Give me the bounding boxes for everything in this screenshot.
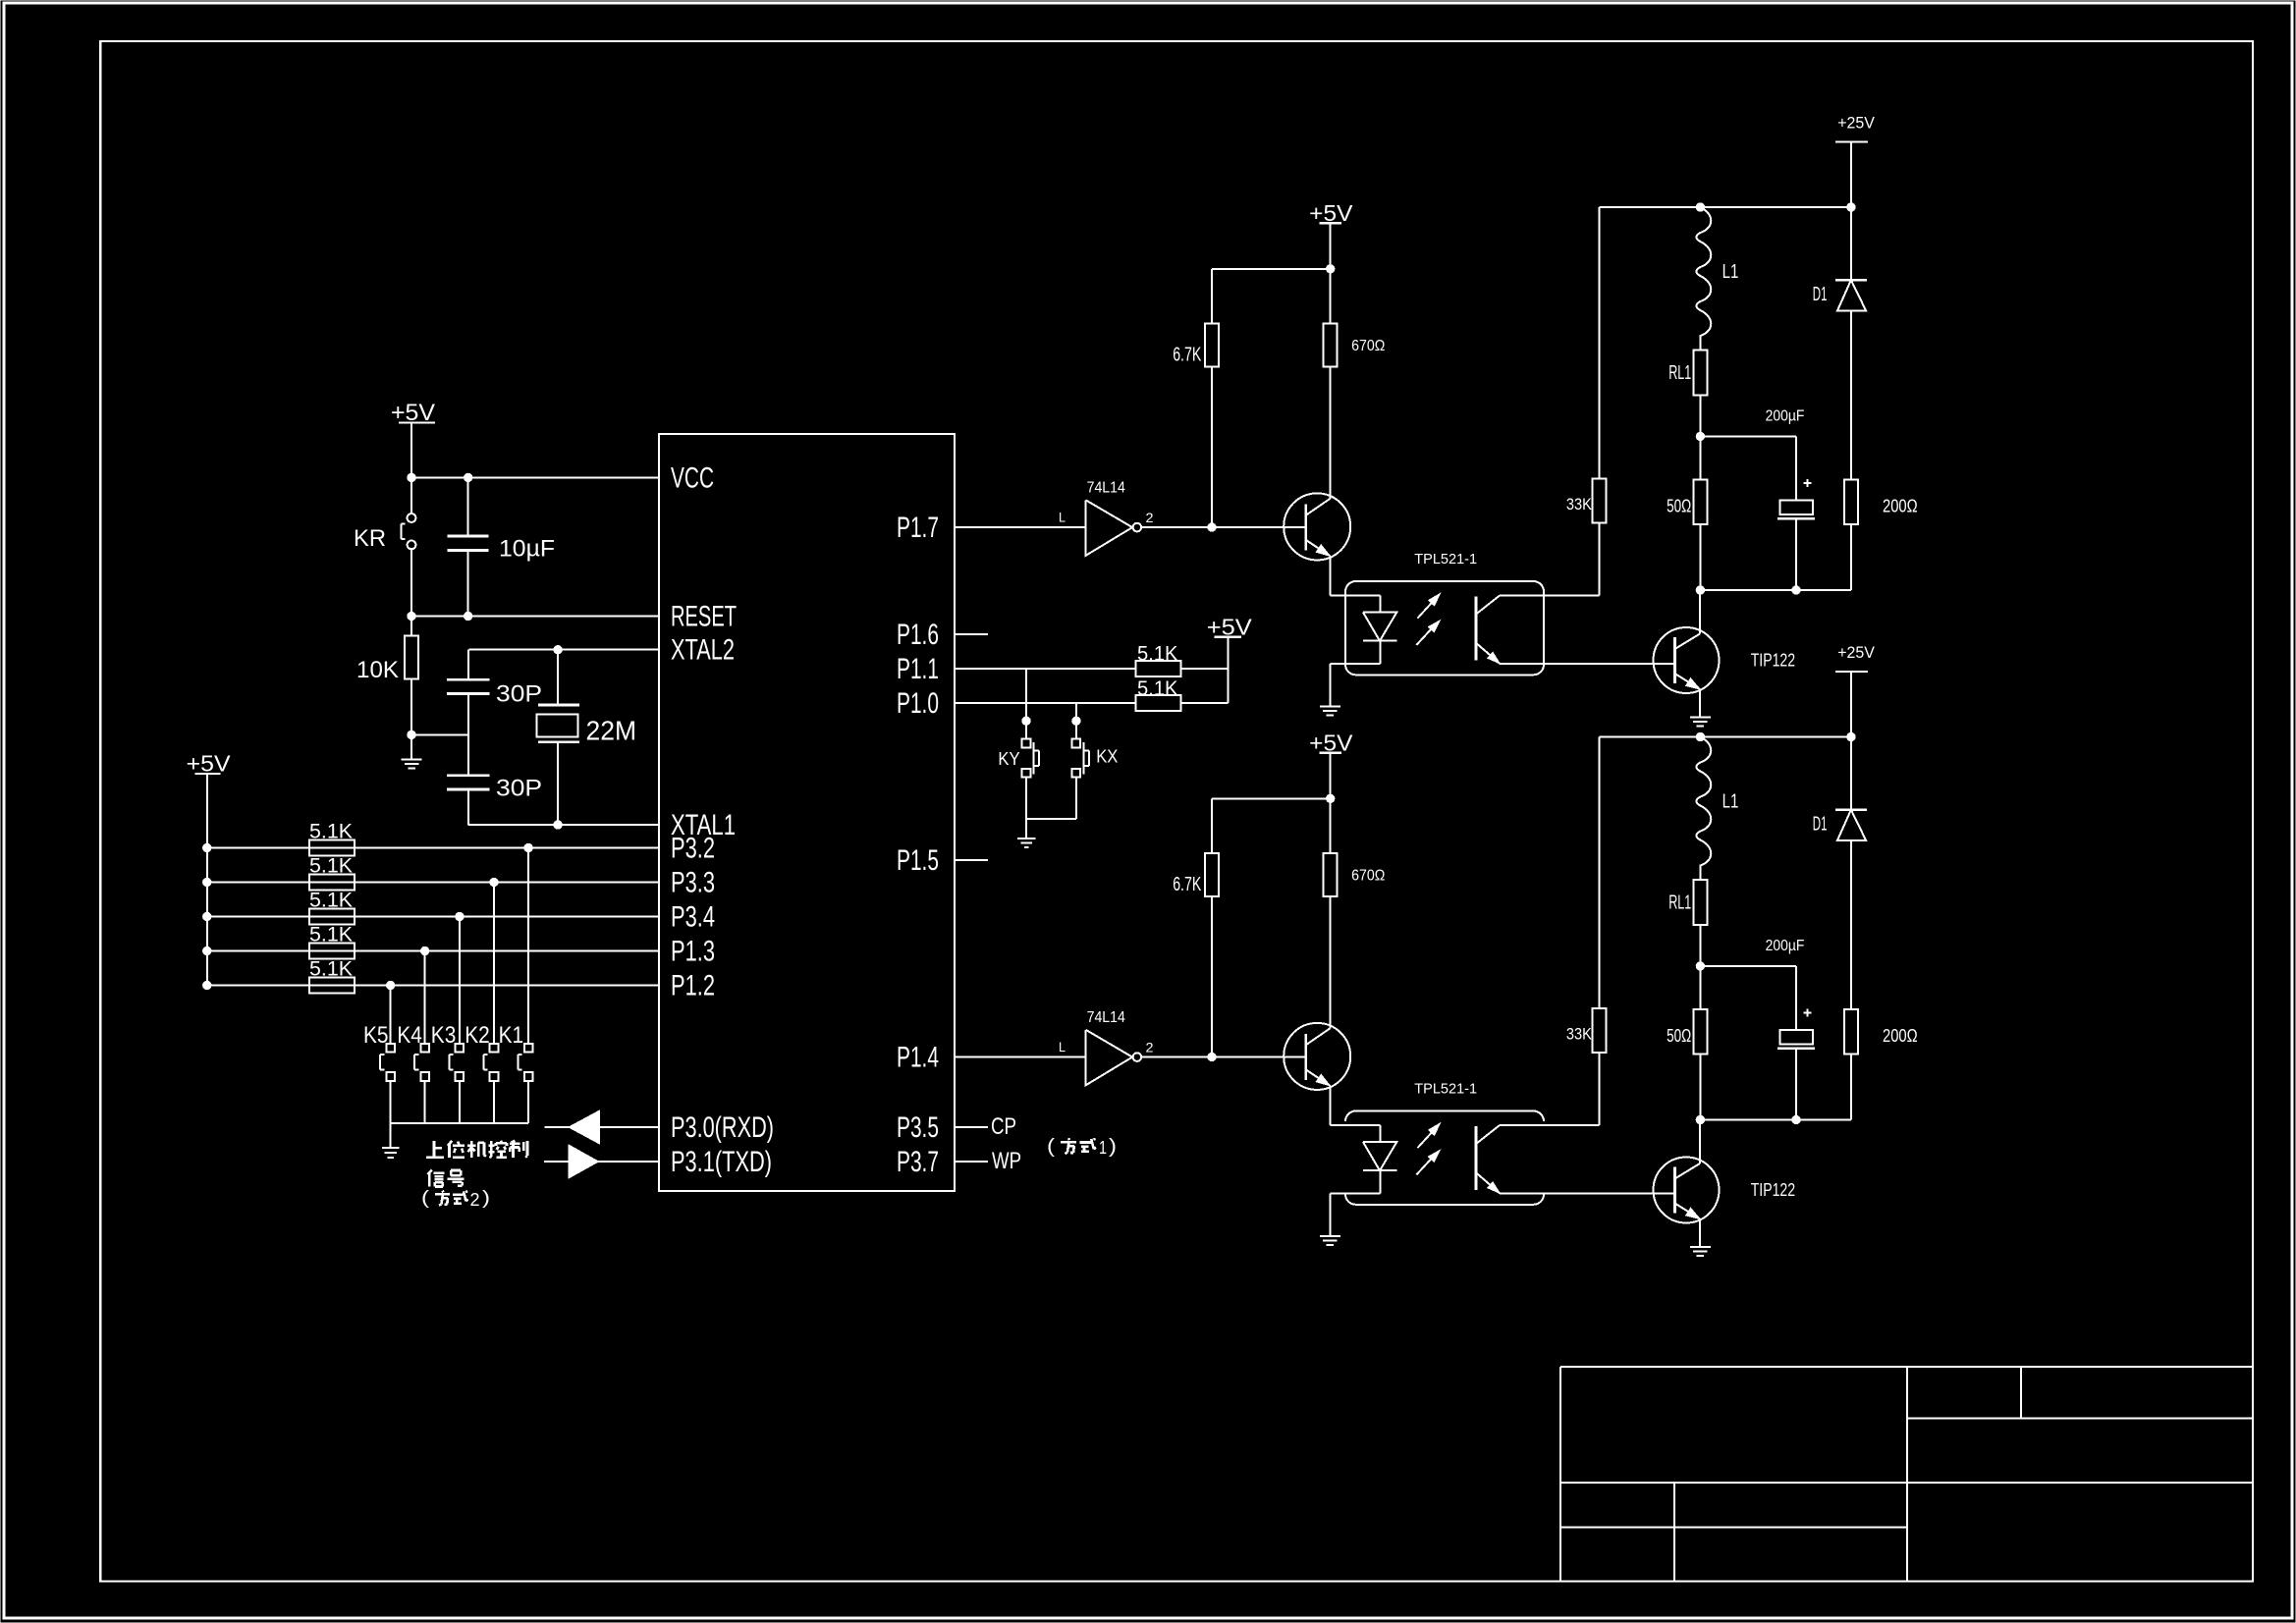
pin label P3.4	[671, 901, 715, 934]
wire K1 to bus	[527, 1081, 529, 1123]
junction RESET/C1	[465, 612, 472, 620]
opto phototransistor	[1476, 1125, 1500, 1193]
svg-text:L1: L1	[1722, 261, 1739, 283]
svg-text:200Ω: 200Ω	[1883, 1026, 1918, 1046]
pushbutton K1	[519, 1044, 533, 1081]
svg-text:P3.1(TXD): P3.1(TXD)	[671, 1146, 772, 1178]
svg-text:+5V: +5V	[1207, 615, 1253, 640]
wire K2 drop	[493, 883, 495, 1044]
resistor 5.1K P1.2	[309, 978, 355, 994]
label 5.1K P1.2	[309, 956, 354, 981]
svg-text:74L14: 74L14	[1087, 480, 1126, 497]
junction +5V/670	[1327, 794, 1335, 802]
label 200uF	[1766, 407, 1805, 425]
label D1	[1813, 814, 1828, 836]
svg-text:): )	[1109, 1136, 1117, 1158]
junction VCC/KR	[408, 473, 415, 481]
ground opto LED	[1320, 1236, 1340, 1245]
pin label P1.7	[897, 512, 939, 544]
transistor TIP122	[1654, 1158, 1720, 1223]
pin label P3.7	[897, 1146, 939, 1178]
transistor Q NPN	[1284, 493, 1350, 560]
junction rail/50	[1696, 586, 1704, 594]
label 5.1K P3.2	[309, 819, 354, 843]
wire +5V drop	[1330, 223, 1332, 269]
ground key bus	[382, 1123, 400, 1158]
svg-text:TPL521-1: TPL521-1	[1414, 552, 1477, 568]
label TIP122	[1751, 1180, 1795, 1201]
pushbutton K2	[483, 1044, 498, 1081]
label K2	[465, 1023, 490, 1049]
svg-text:(: (	[1047, 1136, 1055, 1158]
junction rail/+25V	[1847, 732, 1855, 740]
pushbutton KR	[401, 477, 415, 616]
label WP	[992, 1149, 1021, 1174]
svg-text:10µF: 10µF	[499, 537, 555, 563]
junction rail/+25V	[1847, 203, 1855, 211]
label 6.7K	[1173, 345, 1201, 366]
pin label P3.0(RXD)	[671, 1111, 774, 1144]
pushbutton K5	[380, 1044, 395, 1081]
svg-text:RL1: RL1	[1668, 891, 1691, 913]
pin label RESET	[671, 601, 737, 633]
junction rail/P1.3	[203, 947, 211, 954]
wire P3.1 TXD	[544, 1161, 659, 1163]
svg-text:5.1K: 5.1K	[1137, 676, 1178, 700]
wire inverter output to Q base	[1141, 1056, 1305, 1058]
resistor 670	[1324, 323, 1338, 366]
capacitor 200uF	[1777, 479, 1815, 590]
resistor 6.7K	[1205, 323, 1219, 366]
wire Q emitter to opto pin1	[1330, 1086, 1380, 1125]
svg-text:1: 1	[1099, 1138, 1107, 1159]
diode D1	[1835, 737, 1867, 1009]
wire +5V drop	[1330, 753, 1332, 799]
wire TIP emitter to ground	[1699, 689, 1701, 718]
light arrow 1	[1417, 1123, 1440, 1148]
label 74L14	[1087, 480, 1126, 497]
label shangweiji kongzhi	[426, 1141, 527, 1158]
junction RESET/KR	[408, 612, 415, 620]
svg-text:+5V: +5V	[1309, 730, 1353, 756]
resistor 5.1K P3.4	[309, 909, 355, 925]
stub P3.5 CP	[955, 1126, 988, 1128]
wire TIP collector	[1699, 1120, 1701, 1164]
wire K5 drop	[390, 986, 392, 1044]
pushbutton K3	[449, 1044, 464, 1081]
wire K4 to bus	[424, 1081, 426, 1123]
wire K3 to bus	[459, 1081, 461, 1123]
label K1	[499, 1023, 523, 1049]
wire K3 drop	[459, 917, 461, 1044]
label 22M	[586, 716, 637, 746]
junction RL1/cap	[1696, 432, 1704, 440]
pin label P3.2	[671, 833, 715, 865]
light arrow 2	[1416, 621, 1440, 645]
resistor 5.1K P1.3	[309, 944, 355, 959]
junction rail/P3.4	[203, 912, 211, 920]
label CP	[991, 1114, 1016, 1140]
power +5V	[1309, 200, 1353, 226]
wire 670 leg	[1330, 798, 1332, 1028]
svg-text:200µF: 200µF	[1766, 937, 1805, 954]
ground opto LED	[1320, 707, 1340, 716]
label 5.1K P3.4	[309, 888, 354, 912]
title block vertical 1	[1906, 1367, 1908, 1582]
light arrow 1	[1417, 594, 1440, 619]
wire TIP collector	[1699, 590, 1701, 634]
wire opto emitter to TIP base	[1500, 1192, 1674, 1194]
svg-text:D1: D1	[1813, 814, 1828, 836]
wire +5V pullup drop	[1227, 637, 1229, 703]
svg-text:P1.6: P1.6	[897, 619, 939, 651]
wire KX to join	[1075, 778, 1077, 819]
title block divider right row	[1907, 1417, 2253, 1419]
junction KY	[1022, 717, 1030, 725]
label fangshi2	[421, 1187, 490, 1211]
svg-text:5.1K: 5.1K	[309, 922, 354, 947]
power +5V pullups	[1207, 615, 1253, 640]
label KY	[998, 749, 1019, 769]
ground TIP122	[1690, 718, 1711, 727]
svg-text:10K: 10K	[356, 658, 399, 683]
resistor 5.1K P3.2	[309, 840, 355, 856]
power +25V	[1835, 643, 1876, 737]
wire K4 drop	[424, 951, 426, 1044]
svg-text:): )	[482, 1187, 490, 1209]
svg-text:200Ω: 200Ω	[1883, 497, 1918, 516]
junction rail/cap	[1792, 586, 1800, 594]
label 50 ohm	[1667, 497, 1691, 516]
wire XTAL1	[468, 824, 659, 826]
wire P1.2 row	[207, 985, 659, 987]
svg-text:L1: L1	[1722, 791, 1739, 813]
svg-text:K5: K5	[363, 1023, 389, 1049]
resistor 5.1K P3.3	[309, 875, 355, 891]
power +25V	[1835, 113, 1876, 207]
junction RL1/cap	[1696, 962, 1704, 970]
wire +25V top rail	[1600, 206, 1851, 208]
wire K1 drop	[527, 848, 529, 1044]
wire cap chain bottom	[467, 789, 469, 825]
label 200 ohm	[1883, 497, 1918, 516]
wire +5V rail to 670	[1212, 268, 1331, 270]
label 30P lower	[496, 777, 542, 802]
wire +5V rail to 670	[1212, 797, 1331, 799]
svg-text:P1.5: P1.5	[897, 844, 939, 877]
label RL1	[1668, 361, 1691, 384]
junction VCC/C1	[465, 473, 472, 481]
wire KX branch	[1075, 703, 1077, 738]
label TIP122	[1751, 651, 1795, 672]
transistor Q NPN	[1284, 1023, 1350, 1090]
label 6.7K	[1173, 874, 1201, 895]
pin label P1.6	[897, 619, 939, 651]
svg-text:P1.4: P1.4	[897, 1042, 939, 1074]
svg-text:33K: 33K	[1566, 1025, 1592, 1043]
svg-text:670Ω: 670Ω	[1351, 337, 1385, 354]
wire key ground bus	[391, 1122, 528, 1124]
resistor 50	[1693, 479, 1707, 524]
title block vertical 3	[1673, 1483, 1675, 1582]
junction rail/P3.2	[203, 843, 211, 851]
junction P1.2/K5	[387, 981, 395, 989]
svg-text:30P: 30P	[496, 777, 542, 802]
inductor L1	[1696, 207, 1711, 351]
label KR	[354, 526, 386, 552]
crystal 22M	[536, 650, 578, 825]
svg-text:(: (	[421, 1187, 430, 1209]
ground reset divider	[402, 734, 422, 768]
capacitor 30P lower	[447, 776, 489, 789]
junction P3.4/K3	[456, 912, 464, 920]
power +5V key rail	[187, 751, 232, 986]
optocoupler TPL521-1 body	[1345, 581, 1544, 675]
capacitor 200uF	[1777, 1008, 1815, 1119]
title block divider left row	[1560, 1527, 1907, 1529]
label L inverter input	[1059, 509, 1066, 524]
label D1	[1813, 284, 1828, 305]
transistor TIP122	[1654, 627, 1720, 693]
label L1	[1722, 791, 1739, 813]
wire TIP emitter to ground	[1699, 1219, 1701, 1248]
label 200uF	[1766, 937, 1805, 954]
wire 33K leg	[1599, 737, 1601, 1125]
svg-text:+5V: +5V	[1309, 200, 1353, 226]
svg-text:50Ω: 50Ω	[1667, 1026, 1691, 1046]
junction P3.2/K1	[524, 843, 532, 851]
svg-text:670Ω: 670Ω	[1351, 867, 1385, 885]
wire VCC	[411, 476, 659, 478]
svg-text:5.1K: 5.1K	[309, 853, 354, 878]
svg-text:2: 2	[1146, 1039, 1154, 1055]
svg-text:2: 2	[470, 1190, 480, 1211]
svg-text:K3: K3	[431, 1023, 457, 1049]
wire KY to join	[1025, 778, 1027, 819]
wire 200 to rail	[1850, 524, 1852, 590]
label RL1	[1668, 891, 1691, 913]
opto LED	[1363, 595, 1397, 663]
wire bottom rail	[1700, 589, 1851, 591]
resistor 33K	[1593, 478, 1607, 522]
label pin 2	[1146, 1039, 1154, 1055]
wire RL1 to node	[1699, 396, 1701, 480]
svg-text:KY: KY	[998, 749, 1019, 769]
svg-text:P1.0: P1.0	[897, 687, 939, 720]
svg-text:22M: 22M	[586, 716, 637, 746]
wire KY branch	[1025, 669, 1027, 738]
opto phototransistor	[1476, 595, 1500, 663]
junction rail/P1.2	[203, 981, 211, 989]
arrow TXD	[569, 1145, 599, 1178]
svg-text:WP: WP	[992, 1149, 1021, 1174]
capacitor 10uF	[448, 477, 489, 616]
resistor 5.1K P1.1	[1136, 661, 1181, 676]
svg-text:D1: D1	[1813, 284, 1828, 305]
label TPL521-1	[1414, 1082, 1477, 1098]
label 50 ohm	[1667, 1026, 1691, 1046]
label 5.1K P1.0	[1137, 676, 1178, 700]
wire 33K leg	[1599, 207, 1601, 595]
svg-text:5.1K: 5.1K	[309, 819, 354, 843]
svg-text:74L14: 74L14	[1087, 1009, 1126, 1026]
label 670 ohm	[1351, 337, 1385, 354]
svg-text:TIP122: TIP122	[1751, 1180, 1795, 1201]
junction P1.3/K4	[421, 947, 429, 954]
arrow RXD	[569, 1110, 600, 1144]
stub P1.5	[955, 859, 988, 861]
wire opto LED cathode to ground	[1330, 664, 1380, 707]
junction base/6.7K	[1208, 523, 1216, 531]
svg-text:P3.2: P3.2	[671, 833, 715, 865]
resistor 670	[1324, 853, 1338, 896]
wire 6.7K leg	[1211, 269, 1213, 527]
junction rail/P3.3	[203, 878, 211, 886]
stub P1.6	[955, 633, 988, 635]
wire cap chain top	[467, 650, 469, 680]
capacitor 30P upper	[447, 679, 489, 693]
wire P1.0	[955, 702, 1135, 704]
svg-text:TIP122: TIP122	[1751, 651, 1795, 672]
power +5V	[1309, 730, 1353, 756]
wire inverter output to Q base	[1141, 526, 1305, 528]
inverter 74L14	[1086, 500, 1142, 556]
svg-text:L: L	[1059, 509, 1066, 524]
resistor 10K	[405, 617, 418, 735]
wire 670 leg	[1330, 269, 1332, 499]
wire P1.3 row	[207, 950, 659, 952]
wire 10K to caps	[411, 733, 468, 735]
wire pullup join P1.1	[1181, 668, 1229, 670]
resistor 50	[1693, 1009, 1707, 1055]
diode D1	[1835, 207, 1867, 479]
svg-text:XTAL2: XTAL2	[671, 634, 735, 667]
light arrow 2	[1416, 1150, 1440, 1174]
label 30P upper	[496, 682, 542, 708]
resistor 33K	[1593, 1008, 1607, 1053]
wire XTAL2	[468, 649, 659, 651]
label 33K	[1566, 1025, 1592, 1043]
pin label P1.5	[897, 844, 939, 877]
MCU 89C51 box	[659, 434, 955, 1191]
title block divider mid	[1560, 1482, 2253, 1484]
title block outline	[1560, 1367, 2253, 1582]
label L inverter input	[1059, 1039, 1066, 1055]
label 10K	[356, 658, 399, 683]
wire 6.7K leg	[1211, 798, 1213, 1056]
wire K5 to bus	[390, 1081, 392, 1123]
wire +25V top rail	[1600, 736, 1851, 738]
label KX	[1096, 747, 1118, 767]
wire opto collector to 33K	[1500, 1124, 1599, 1126]
label TPL521-1	[1414, 552, 1477, 568]
wire cap chain mid	[467, 693, 469, 775]
svg-text:2: 2	[1146, 510, 1154, 525]
label xinhao	[428, 1170, 465, 1187]
label 5.1K P3.3	[309, 853, 354, 878]
junction rail/L1	[1696, 203, 1704, 211]
wire opto LED cathode to ground	[1330, 1193, 1380, 1236]
wire Q emitter to opto pin1	[1330, 556, 1380, 595]
wire bottom rail	[1700, 1119, 1851, 1121]
wire KY/KX join	[1026, 818, 1076, 820]
resistor 6.7K	[1205, 853, 1219, 896]
pin label XTAL2	[671, 634, 735, 667]
svg-text:+5V: +5V	[187, 751, 232, 777]
stub P3.7 WP	[955, 1161, 988, 1163]
wire 50 to rail	[1699, 524, 1701, 590]
svg-text:P3.4: P3.4	[671, 901, 715, 934]
svg-text:6.7K: 6.7K	[1173, 345, 1201, 366]
junction base/6.7K	[1208, 1053, 1216, 1060]
resistor RL1	[1693, 351, 1707, 396]
resistor RL1	[1693, 880, 1707, 925]
wire opto collector to 33K	[1500, 594, 1599, 596]
junction P3.3/K2	[490, 878, 498, 886]
inverter 74L14	[1086, 1030, 1142, 1086]
wire RESET	[411, 616, 659, 618]
junction rail/L1	[1696, 732, 1704, 740]
label 74L14	[1087, 1009, 1126, 1026]
label pin 2	[1146, 510, 1154, 525]
label K4	[397, 1023, 422, 1049]
svg-text:TPL521-1: TPL521-1	[1414, 1082, 1477, 1098]
wire P1.4 to inverter	[955, 1056, 1086, 1058]
svg-text:P1.3: P1.3	[671, 936, 715, 968]
wire 50 to rail	[1699, 1054, 1701, 1119]
wire P1.1	[955, 668, 1135, 670]
wire cap branch	[1700, 966, 1796, 1030]
svg-text:RESET: RESET	[671, 601, 737, 633]
label K5	[363, 1023, 389, 1049]
wire K2 to bus	[493, 1081, 495, 1123]
opto LED	[1363, 1125, 1397, 1193]
junction KX	[1072, 717, 1080, 725]
svg-text:CP: CP	[991, 1114, 1016, 1140]
inductor L1	[1696, 737, 1711, 881]
svg-text:+25V: +25V	[1837, 643, 1875, 662]
pin label P1.2	[671, 970, 715, 1002]
wire P3.2 row	[207, 847, 659, 849]
svg-text:P1.1: P1.1	[897, 653, 939, 685]
svg-text:P3.5: P3.5	[897, 1111, 939, 1144]
label 5.1K P1.1	[1137, 642, 1178, 666]
svg-text:P3.3: P3.3	[671, 867, 715, 899]
wire RL1 to node	[1699, 925, 1701, 1009]
resistor 200	[1844, 479, 1858, 524]
pin label P3.1(TXD)	[671, 1146, 772, 1178]
svg-text:200µF: 200µF	[1766, 407, 1805, 425]
label 670 ohm	[1351, 867, 1385, 885]
title block vertical 2	[2020, 1367, 2022, 1418]
svg-text:50Ω: 50Ω	[1667, 497, 1691, 516]
pin label P3.3	[671, 867, 715, 899]
power +5V reset	[391, 401, 435, 477]
svg-text:5.1K: 5.1K	[1137, 642, 1178, 666]
svg-text:5.1K: 5.1K	[309, 888, 354, 912]
label fangshi1	[1047, 1136, 1117, 1159]
svg-text:P3.7: P3.7	[897, 1146, 939, 1178]
svg-text:30P: 30P	[496, 682, 542, 708]
svg-text:P1.2: P1.2	[671, 970, 715, 1002]
wire opto emitter to TIP base	[1500, 663, 1674, 665]
svg-text:5.1K: 5.1K	[309, 956, 354, 981]
svg-text:VCC: VCC	[671, 461, 714, 494]
label 5.1K P1.3	[309, 922, 354, 947]
label 200 ohm	[1883, 1026, 1918, 1046]
junction XTAL2/crystal	[554, 646, 562, 654]
pin label VCC	[671, 461, 714, 494]
